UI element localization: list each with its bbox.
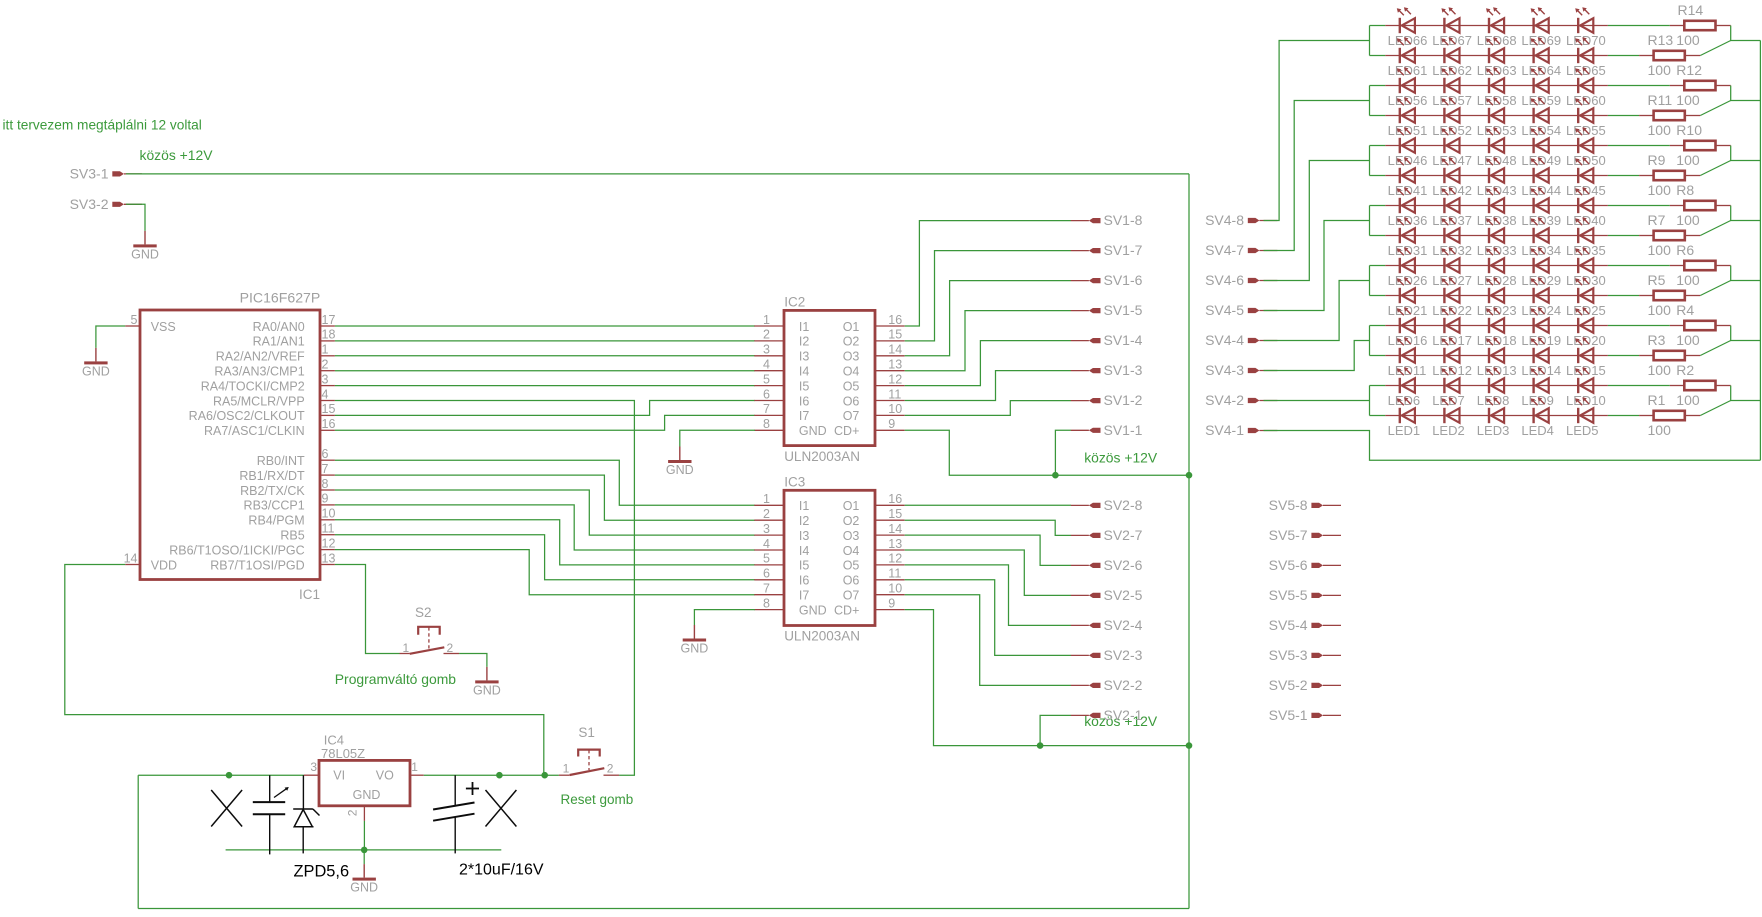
wire R13 diagonal to node <box>1700 41 1730 56</box>
wire RB4 to IC3 I5 <box>335 520 755 565</box>
pin IC3 O1 (16) <box>843 492 905 513</box>
junction közös +12V at trunk <box>1186 472 1193 479</box>
wire LED row 3 left stub <box>1370 85 1386 87</box>
pin IC1 RA4/TOCKI/CMP2 (3) <box>201 372 335 393</box>
pin IC2 O7 (10) <box>843 402 905 423</box>
wire IC2 O1 to SV1-8 <box>905 221 1071 326</box>
wire IC3 O6 to SV2-3 <box>905 580 1071 656</box>
svg-text:R5: R5 <box>1648 272 1666 288</box>
led LED29 <box>1521 247 1561 288</box>
zener diode ZPD5,6 <box>293 775 319 853</box>
wire IC3 O1 to SV2-8 <box>905 504 1071 506</box>
connector pin SV1-8 <box>1071 212 1143 228</box>
svg-text:R11: R11 <box>1648 92 1673 108</box>
switch S2 Programváltó <box>400 605 460 655</box>
resistor R11 <box>1639 111 1700 120</box>
svg-text:6: 6 <box>763 567 770 581</box>
led LED65 <box>1566 37 1606 78</box>
svg-text:RB4/PGM: RB4/PGM <box>248 514 304 528</box>
wire SV4-6 to LED row pair 3 <box>1264 161 1370 281</box>
wire LED row 12 to R3 <box>1608 355 1639 357</box>
wire output rail right <box>424 774 559 776</box>
pin IC1 RB2/TX/CK (8) <box>240 477 335 498</box>
wire RA4 to IC2 I5 <box>335 385 755 387</box>
wire LED pair 7 vertical <box>1369 386 1371 416</box>
wire RB2 to IC3 I3 <box>335 490 755 535</box>
svg-text:SV1-5: SV1-5 <box>1104 302 1143 318</box>
svg-text:SV5-7: SV5-7 <box>1269 527 1308 543</box>
svg-text:5: 5 <box>763 372 770 386</box>
pin IC2 I4 (4) <box>754 358 809 379</box>
led LED66 <box>1388 7 1428 48</box>
svg-text:3: 3 <box>310 760 317 774</box>
wire LED row 6 left stub <box>1370 175 1386 177</box>
led LED15 <box>1566 337 1606 378</box>
svg-text:I7: I7 <box>799 409 809 423</box>
pin IC2 I5 (5) <box>754 372 809 393</box>
led LED61 <box>1388 37 1428 78</box>
svg-text:R12: R12 <box>1676 62 1702 78</box>
svg-text:5: 5 <box>763 552 770 566</box>
svg-text:100: 100 <box>1676 272 1700 288</box>
svg-text:1: 1 <box>763 492 770 506</box>
wire RB1 to IC3 I2 <box>335 475 755 520</box>
svg-text:SV5-4: SV5-4 <box>1269 617 1308 633</box>
wire LED pair 6 vertical <box>1369 326 1371 356</box>
svg-text:I5: I5 <box>799 559 809 573</box>
connector pin SV2-2 <box>1071 677 1143 693</box>
svg-text:GND: GND <box>131 247 159 261</box>
pin IC3 O4 (13) <box>843 537 905 558</box>
led LED40 <box>1566 187 1606 228</box>
svg-text:SV5-5: SV5-5 <box>1269 587 1308 603</box>
wire RA7 to IC2 I7 <box>335 415 755 430</box>
svg-text:100: 100 <box>1676 92 1700 108</box>
wire LED row 14 left stub <box>1370 415 1386 417</box>
led LED33 <box>1477 217 1517 258</box>
wire bottom ground rail <box>226 849 502 851</box>
ic IC3 ULN2003AN body <box>784 474 875 643</box>
junction közös +12V 2 at trunk <box>1186 742 1193 749</box>
pin IC2 O6 (11) <box>843 387 905 408</box>
svg-text:2: 2 <box>322 358 329 372</box>
svg-text:15: 15 <box>322 402 336 416</box>
svg-text:100: 100 <box>1648 62 1672 78</box>
svg-text:GND: GND <box>799 424 827 438</box>
svg-text:I2: I2 <box>799 335 809 349</box>
svg-text:14: 14 <box>888 343 902 357</box>
svg-text:11: 11 <box>322 522 335 536</box>
svg-text:I3: I3 <box>799 529 809 543</box>
svg-text:SV5-3: SV5-3 <box>1269 647 1308 663</box>
wire LED row 13 to R2 <box>1608 385 1670 387</box>
pin IC2 I1 (1) <box>754 313 809 334</box>
svg-text:3: 3 <box>763 343 770 357</box>
pin IC3 I2 (2) <box>754 507 809 528</box>
wire LED row 8 pins <box>1385 235 1608 237</box>
connector pin SV5-3 <box>1269 647 1341 663</box>
value 100 and label R8 <box>1648 182 1695 198</box>
pin IC3 I5 (5) <box>754 552 809 573</box>
led LED53 <box>1477 97 1517 138</box>
wire RB5 to IC3 I6 <box>335 535 755 580</box>
svg-text:I7: I7 <box>799 589 809 603</box>
label R5 and value 100 <box>1648 272 1700 288</box>
pin IC3 O5 (12) <box>843 552 905 573</box>
ground GND main <box>350 864 378 895</box>
wire IC2 O4 to SV1-5 <box>905 311 1071 371</box>
wire SV3-2 to ground <box>126 204 145 231</box>
pin IC2 O1 (16) <box>843 313 905 334</box>
wire LED row 6 pins <box>1385 175 1608 177</box>
svg-text:O2: O2 <box>843 335 860 349</box>
svg-text:LED7: LED7 <box>1432 393 1465 408</box>
junction ground rail IC4 GND <box>361 847 368 854</box>
svg-text:15: 15 <box>888 328 902 342</box>
svg-text:RB1/RX/DT: RB1/RX/DT <box>239 469 305 483</box>
wire R12 to trunk <box>1731 86 1761 101</box>
wire LED pair 5 vertical <box>1369 266 1371 296</box>
wire LED row 11 left stub <box>1370 325 1386 327</box>
svg-text:SV2-2: SV2-2 <box>1104 677 1143 693</box>
svg-text:LED8: LED8 <box>1477 393 1510 408</box>
svg-text:R2: R2 <box>1676 362 1694 378</box>
svg-text:SV1-6: SV1-6 <box>1104 272 1143 288</box>
junction közös +12V at SV1-1 <box>1052 472 1059 479</box>
connector pin SV3-2 <box>70 196 142 212</box>
pin IC2 O3 (14) <box>843 343 905 364</box>
svg-text:10: 10 <box>888 582 902 596</box>
wire LED pair 4 vertical <box>1369 206 1371 236</box>
label R11 and value 100 <box>1648 92 1700 108</box>
svg-text:100: 100 <box>1648 182 1672 198</box>
resistor R10 <box>1670 141 1731 150</box>
wire LED row 4 to R11 <box>1608 115 1639 117</box>
wire ground rail to GND <box>363 850 365 864</box>
led LED56 <box>1388 67 1428 108</box>
svg-text:100: 100 <box>1676 332 1700 348</box>
svg-text:LED9: LED9 <box>1521 393 1554 408</box>
led LED58 <box>1477 67 1517 108</box>
svg-text:SV1-4: SV1-4 <box>1104 332 1143 348</box>
svg-text:RB6/T1OSO/1ICKI/PGC: RB6/T1OSO/1ICKI/PGC <box>169 543 304 557</box>
svg-text:2*10uF/16V: 2*10uF/16V <box>459 862 544 879</box>
connector pin SV4-2 <box>1205 392 1277 408</box>
connector pin SV2-1 <box>1071 707 1143 723</box>
svg-text:I4: I4 <box>799 365 809 379</box>
wire LED pair 3 vertical <box>1369 146 1371 176</box>
svg-text:100: 100 <box>1676 152 1700 168</box>
pin IC4 GND (2) <box>345 806 364 850</box>
pin IC3 CD+ (9) <box>834 596 905 617</box>
svg-text:S2: S2 <box>415 605 432 620</box>
pin IC1 RB5 (11) <box>280 522 335 543</box>
svg-text:18: 18 <box>322 328 336 342</box>
resistor R5 <box>1639 291 1700 300</box>
pin IC3 I3 (3) <box>754 522 809 543</box>
wire R7 diagonal to node <box>1700 221 1730 236</box>
svg-text:RB3/CCP1: RB3/CCP1 <box>244 499 305 513</box>
wire IC2 O6 to SV1-3 <box>905 371 1071 401</box>
svg-text:I3: I3 <box>799 350 809 364</box>
svg-text:SV5-8: SV5-8 <box>1269 497 1308 513</box>
svg-text:S1: S1 <box>578 725 595 740</box>
svg-text:R9: R9 <box>1648 152 1666 168</box>
svg-text:CD+: CD+ <box>834 603 859 617</box>
ic IC2 ULN2003AN body <box>784 295 875 464</box>
ground GND SV3-2 <box>131 231 159 262</box>
pin IC3 GND (8) <box>754 596 826 617</box>
connector pin SV4-5 <box>1205 302 1277 318</box>
value 100 and label R2 <box>1648 362 1695 378</box>
wire IC2 GND <box>680 430 755 446</box>
wire LED row 12 pins <box>1385 355 1608 357</box>
resistor R13 <box>1639 51 1700 60</box>
resistor R7 <box>1639 231 1700 240</box>
svg-text:RA3/AN3/CMP1: RA3/AN3/CMP1 <box>214 365 304 379</box>
led LED54 <box>1521 97 1561 138</box>
connector pin SV2-3 <box>1071 647 1143 663</box>
wire R6 to trunk <box>1731 266 1761 281</box>
svg-text:SV1-3: SV1-3 <box>1104 362 1143 378</box>
svg-text:SV2-3: SV2-3 <box>1104 647 1143 663</box>
svg-text:9: 9 <box>322 492 329 506</box>
pin IC2 I2 (2) <box>754 328 809 349</box>
svg-text:I6: I6 <box>799 574 809 588</box>
resistor R9 <box>1639 171 1700 180</box>
svg-text:VO: VO <box>376 769 394 783</box>
svg-text:R14: R14 <box>1678 2 1704 18</box>
wire RA0 to IC2 I1 <box>335 325 755 327</box>
svg-text:1: 1 <box>411 760 418 774</box>
wire RB6 to IC3 I7 <box>335 550 755 595</box>
wire IC2 O5 to SV1-4 <box>905 341 1071 386</box>
connector pin SV5-2 <box>1269 677 1341 693</box>
svg-text:O5: O5 <box>843 379 860 393</box>
wire LED row 9 pins <box>1385 265 1608 267</box>
wire LED row 14 pins <box>1385 415 1608 417</box>
svg-text:100: 100 <box>1648 362 1672 378</box>
pin IC3 O7 (10) <box>843 582 905 603</box>
svg-text:3: 3 <box>322 372 329 386</box>
svg-text:4: 4 <box>763 358 770 372</box>
led LED30 <box>1566 247 1606 288</box>
svg-text:SV3-2: SV3-2 <box>70 196 109 212</box>
svg-text:O6: O6 <box>843 394 860 408</box>
wire SV4-8 to LED row pair 1 <box>1264 41 1370 221</box>
svg-text:RA2/AN2/VREF: RA2/AN2/VREF <box>216 350 305 364</box>
wire LED row 1 left stub <box>1370 25 1386 27</box>
resistor R4 <box>1670 321 1731 330</box>
svg-text:7: 7 <box>763 582 770 596</box>
svg-text:RA1/AN1: RA1/AN1 <box>253 335 305 349</box>
pin IC2 I3 (3) <box>754 343 809 364</box>
wire LED row 5 pins <box>1385 145 1608 147</box>
ground GND S2 <box>473 667 501 698</box>
pin IC3 I1 (1) <box>754 492 809 513</box>
connector pin SV5-5 <box>1269 587 1341 603</box>
wire SV4-4 to LED row pair 5 <box>1264 281 1370 341</box>
wire LED row 10 left stub <box>1370 295 1386 297</box>
svg-text:13: 13 <box>888 358 902 372</box>
label R9 and value 100 <box>1648 152 1700 168</box>
wire SV1-1 to közös +12V <box>1055 430 1071 475</box>
svg-text:ZPD5,6: ZPD5,6 <box>294 862 350 880</box>
svg-text:16: 16 <box>322 417 336 431</box>
svg-text:GND: GND <box>799 603 827 617</box>
svg-text:R10: R10 <box>1676 122 1702 138</box>
svg-text:O6: O6 <box>843 574 860 588</box>
svg-text:17: 17 <box>322 313 336 327</box>
wire IC2 O3 to SV1-6 <box>905 281 1071 356</box>
led LED43 <box>1477 157 1517 198</box>
label R7 and value 100 <box>1648 212 1700 228</box>
wire LED row 2 left stub <box>1370 55 1386 57</box>
svg-text:10: 10 <box>888 402 902 416</box>
led LED48 <box>1477 127 1517 168</box>
svg-text:1: 1 <box>322 343 329 357</box>
led LED17 <box>1432 307 1472 348</box>
pin IC2 I7 (7) <box>754 402 809 423</box>
switch S1 Reset <box>559 725 619 776</box>
svg-text:RA7/ASC1/CLKIN: RA7/ASC1/CLKIN <box>204 424 305 438</box>
ground GND IC3 <box>681 625 709 656</box>
svg-text:16: 16 <box>888 492 902 506</box>
wire VSS to ground <box>96 326 125 348</box>
capacitor C1 <box>253 775 289 854</box>
svg-text:12: 12 <box>888 552 902 566</box>
svg-text:O2: O2 <box>843 514 860 528</box>
wire R10 to trunk <box>1731 146 1761 161</box>
svg-text:RB2/TX/CK: RB2/TX/CK <box>240 484 305 498</box>
pin IC1 VDD (14) <box>124 551 178 572</box>
pin IC2 CD+ (9) <box>834 417 905 438</box>
svg-text:SV4-5: SV4-5 <box>1205 302 1244 318</box>
led LED46 <box>1388 127 1428 168</box>
svg-text:1: 1 <box>763 313 770 327</box>
connector pin SV5-8 <box>1269 497 1341 513</box>
pin IC2 O2 (15) <box>843 328 905 349</box>
svg-text:RB5: RB5 <box>280 529 304 543</box>
connector pin SV1-7 <box>1071 242 1143 258</box>
wire IC3 O7 to SV2-2 <box>905 595 1071 686</box>
led LED35 <box>1566 217 1606 258</box>
svg-text:6: 6 <box>322 447 329 461</box>
led LED23 <box>1477 277 1517 318</box>
led LED70 <box>1566 7 1606 48</box>
wire LED row 1 pins <box>1385 25 1608 27</box>
wire R9 diagonal to node <box>1700 161 1730 176</box>
svg-text:10: 10 <box>322 507 336 521</box>
wire RA3 to IC2 I4 <box>335 370 755 372</box>
wire LED row 7 left stub <box>1370 205 1386 207</box>
value 100 and label R12 <box>1648 62 1703 78</box>
led LED12 <box>1432 337 1472 378</box>
svg-text:7: 7 <box>763 402 770 416</box>
wire IC3 GND <box>694 610 755 625</box>
svg-text:R1: R1 <box>1648 392 1666 408</box>
pin IC1 RA5/MCLR/VPP (4) <box>213 387 335 408</box>
svg-text:Programváltó gomb: Programváltó gomb <box>335 671 456 687</box>
wire LED row 2 pins <box>1385 55 1608 57</box>
svg-text:2: 2 <box>607 762 614 776</box>
value 100 and label R10 <box>1648 122 1703 138</box>
led LED67 <box>1432 7 1472 48</box>
connector pin SV2-8 <box>1071 497 1143 513</box>
svg-text:2: 2 <box>345 809 359 816</box>
svg-text:SV5-6: SV5-6 <box>1269 557 1308 573</box>
svg-text:PIC16F627P: PIC16F627P <box>240 290 321 306</box>
svg-text:R7: R7 <box>1648 212 1666 228</box>
svg-text:RB7/T1OSI/PGD: RB7/T1OSI/PGD <box>210 558 304 572</box>
connector pin SV5-1 <box>1269 707 1341 723</box>
svg-text:7: 7 <box>322 462 329 476</box>
led LED31 <box>1388 217 1428 258</box>
pin IC3 O3 (14) <box>843 522 905 543</box>
svg-text:I1: I1 <box>799 499 809 513</box>
svg-text:R3: R3 <box>1648 332 1666 348</box>
led LED37 <box>1432 187 1472 228</box>
svg-text:13: 13 <box>888 537 902 551</box>
wire LED row 7 pins <box>1385 205 1608 207</box>
svg-text:SV4-2: SV4-2 <box>1205 392 1244 408</box>
svg-text:SV3-1: SV3-1 <box>70 166 109 182</box>
led LED5 <box>1566 397 1599 438</box>
resistor R2 <box>1670 381 1731 390</box>
wire IC3 CD+ to közös +12V <box>905 610 1189 746</box>
svg-text:VSS: VSS <box>151 320 176 334</box>
wire RB7 to S2 <box>335 565 400 654</box>
svg-text:12: 12 <box>888 372 902 386</box>
wire R8 to trunk <box>1731 206 1761 221</box>
svg-text:SV4-1: SV4-1 <box>1205 422 1244 438</box>
svg-text:100: 100 <box>1648 302 1672 318</box>
wire VDD +5V run <box>65 565 544 776</box>
component X2 cross <box>486 790 517 827</box>
wire LED row 10 to R5 <box>1608 295 1639 297</box>
wire LED row 4 left stub <box>1370 115 1386 117</box>
svg-text:100: 100 <box>1648 122 1672 138</box>
pin IC1 RA7/ASC1/CLKIN (16) <box>204 417 335 438</box>
svg-text:SV4-4: SV4-4 <box>1205 332 1244 348</box>
pin IC3 I4 (4) <box>754 537 809 558</box>
led LED38 <box>1477 187 1517 228</box>
wire IC2 O7 to SV1-2 <box>905 401 1071 416</box>
svg-text:R13: R13 <box>1648 32 1674 48</box>
svg-text:12: 12 <box>322 536 336 550</box>
led LED32 <box>1432 217 1472 258</box>
led LED11 <box>1388 337 1427 378</box>
svg-text:1: 1 <box>563 762 570 776</box>
svg-text:GND: GND <box>353 788 381 802</box>
wire IC3 O5 to SV2-4 <box>905 565 1071 626</box>
pin IC2 GND (8) <box>754 417 826 438</box>
svg-text:R8: R8 <box>1676 182 1694 198</box>
wire LED row 7 to R8 <box>1608 205 1670 207</box>
svg-text:9: 9 <box>888 417 895 431</box>
led LED57 <box>1432 67 1472 108</box>
connector pin SV4-8 <box>1205 212 1277 228</box>
pin IC4 VI (3) <box>304 760 319 775</box>
wire LED row 2 to R13 <box>1608 55 1639 57</box>
wire IC3 O2 to SV2-7 <box>905 520 1071 535</box>
svg-text:SV5-2: SV5-2 <box>1269 677 1308 693</box>
svg-text:O1: O1 <box>843 320 860 334</box>
wire IC3 O3 to SV2-6 <box>905 535 1071 565</box>
svg-text:SV2-4: SV2-4 <box>1104 617 1143 633</box>
wire R2 to trunk <box>1731 386 1761 401</box>
svg-text:O4: O4 <box>843 365 860 379</box>
